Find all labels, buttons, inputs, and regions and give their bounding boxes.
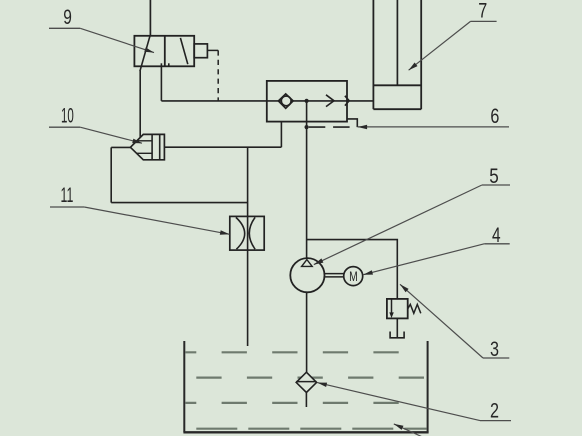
wire supply line to valve 9 [149, 0, 151, 36]
flow direction chevron at valve 6 outlet [345, 96, 349, 106]
nozzle 10 stripe 1 [151, 134, 153, 159]
wire branch to relief valve 3 [307, 240, 398, 299]
svg-text:10: 10 [61, 105, 74, 128]
wire middle vertical through throttle 11 down into tank [247, 147, 249, 346]
shaft between pump and motor [325, 274, 344, 277]
relief valve 3 spring [408, 304, 421, 313]
dashed pilot wire from solenoid down to pipe [217, 50, 219, 101]
wire from solenoid [207, 49, 218, 51]
wire pump suction line down to filter 2 [306, 292, 308, 372]
cylinder 7 bottom cap [373, 108, 421, 110]
pump 5 outlet triangle [302, 260, 313, 267]
nozzle 10 inner bottom line [137, 152, 152, 154]
valve 9 left cell port stub and wire down to pipe [160, 63, 162, 101]
check valve 6 seat diamond [278, 94, 293, 109]
check valve U6 box [267, 81, 347, 122]
wire from valve 9 down to nozzle 10 [139, 71, 141, 138]
svg-text:2: 2 [490, 400, 499, 423]
wire from left loop to nozzle tip [111, 146, 130, 148]
dashed pilot line 6 [309, 126, 352, 128]
wire relief valve drain [396, 318, 398, 337]
cylinder 7 piston rod [396, 0, 398, 85]
valve U9 2-position directional valve body [134, 36, 194, 67]
filter 2 element bar [296, 381, 316, 383]
wire drop from valve 6 bottom to nozzle output line [280, 122, 282, 148]
pump U5 circle [290, 258, 324, 292]
tank right wall [427, 341, 429, 432]
svg-text:7: 7 [478, 0, 487, 22]
wire main pipe from valve 9 to check valve 6 and on to cylinder 7 [161, 100, 373, 102]
wire left loop bottom horizontal [111, 202, 247, 204]
solenoid actuator of valve 9 [194, 44, 207, 58]
svg-text:M: M [349, 269, 358, 284]
cylinder 7 piston [373, 84, 421, 86]
tank liquid dash rows [171, 352, 428, 428]
relief valve U3 square [387, 299, 408, 319]
valve 9 right cell blocked port stub [168, 63, 170, 66]
throttle 11 left arc [236, 217, 245, 249]
valve 9 right position diagonal [180, 38, 187, 64]
pilot step connection into valve 6 [347, 119, 357, 127]
wire below filter [305, 393, 307, 408]
filter U2 diamond [296, 372, 316, 392]
wire left loop vertical [110, 147, 112, 202]
nozzle 10 stripe 2 [159, 134, 161, 159]
label 1 leader cut off at bottom [394, 424, 422, 436]
check valve 6 ball [281, 96, 291, 106]
nozzle 10 inner top line [137, 140, 152, 142]
relief valve 3 internal arrow [391, 300, 393, 314]
tank symbol under relief valve [390, 332, 404, 338]
tank left wall [183, 341, 185, 432]
wire nozzle output line [164, 146, 281, 148]
node junction dot on pilot line [305, 125, 309, 129]
svg-text:11: 11 [61, 184, 74, 207]
svg-text:6: 6 [490, 105, 499, 128]
flow direction chevron inside valve 6 [326, 95, 334, 107]
throttle valve U11 box [230, 216, 264, 250]
valve 9 left position flow path diagonal [140, 36, 150, 71]
wire main vertical line from valve 6 down to pump 5 [306, 101, 308, 258]
node junction dot on pipe inside valve 6 [305, 99, 309, 103]
tank bottom [183, 431, 428, 433]
nozzle U10 body outline [130, 134, 164, 159]
motor U4 circle [344, 267, 363, 286]
cylinder U7 left wall [372, 0, 374, 109]
throttle 11 right arc [249, 217, 255, 249]
cylinder 7 right wall [420, 0, 422, 109]
svg-text:9: 9 [63, 6, 72, 29]
